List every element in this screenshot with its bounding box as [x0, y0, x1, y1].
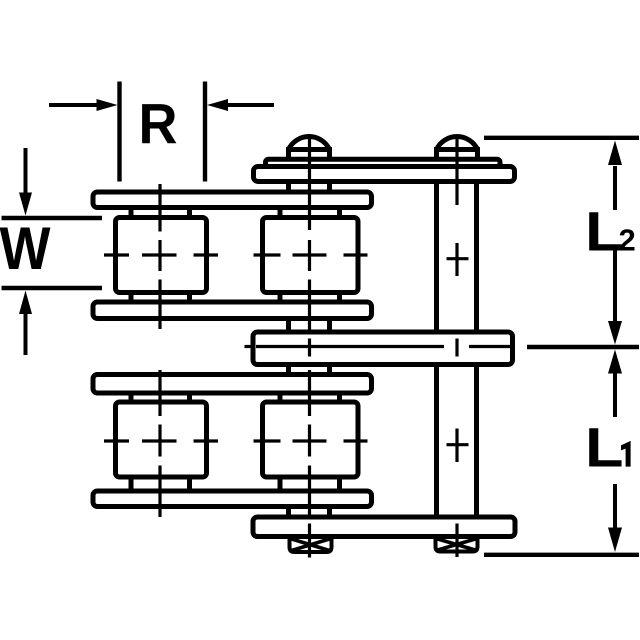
svg-text:R: R	[139, 93, 178, 157]
dimension W lines	[2, 218, 103, 288]
connecting link top plate lower	[254, 167, 515, 182]
connecting link top plate upper	[266, 159, 501, 166]
dimension L1 bottom line	[484, 553, 639, 557]
row1 left roller bushings	[131, 206, 190, 305]
dimension R extension lines	[120, 82, 206, 182]
row1 top link plate	[93, 192, 372, 208]
pin P2 shaft	[437, 181, 477, 519]
centerline middle plate horizontal y346.5	[245, 345, 513, 348]
pin P2 head	[437, 137, 478, 160]
dimension L2 up arrow	[608, 141, 622, 211]
row2 right roller	[263, 402, 359, 477]
centerline row2 horizontal y441	[104, 439, 368, 442]
pin P1 shaft segments	[289, 181, 330, 519]
dimension W bottom arrow	[19, 291, 32, 356]
centerline pin2 cross horizontals	[447, 259, 469, 445]
dimension L1 up arrow	[608, 350, 622, 418]
row2 top link plate	[93, 375, 372, 394]
row1 left roller	[116, 218, 207, 293]
centerline row1 horizontal y255	[104, 253, 368, 256]
dimension L2 top line	[484, 136, 639, 140]
row2 right roller bushings	[280, 391, 340, 493]
dimension R right arrow	[207, 99, 274, 111]
cotter pin C1	[290, 537, 332, 553]
dimension L1 down arrow	[608, 484, 622, 552]
cotter pin C2	[436, 537, 478, 552]
centerline column pin1 x309.5	[308, 139, 311, 558]
centerlines	[104, 139, 512, 558]
row2 left roller	[116, 402, 207, 477]
connecting link bottom plate	[253, 517, 515, 537]
row1 right roller	[263, 218, 359, 293]
centerline column x160 row2	[158, 370, 161, 517]
dimension L2 down arrow	[608, 250, 622, 345]
centerline column x160 row1	[158, 184, 161, 329]
label L1	[585, 416, 631, 479]
dimension W top arrow	[19, 148, 32, 216]
row2 bottom link plate	[93, 491, 372, 507]
dimension mid line	[527, 345, 639, 349]
pin P1 head	[289, 137, 330, 160]
connecting link middle plate	[253, 332, 513, 365]
centerline column pin2 x457	[455, 139, 458, 557]
svg-text:W: W	[0, 215, 51, 282]
dimension R left arrow	[49, 99, 118, 111]
row1 bottom link plate	[93, 302, 372, 319]
label L2	[585, 200, 636, 263]
row2 left roller bushings	[131, 391, 190, 493]
svg-text:L: L	[585, 416, 624, 479]
svg-text:2: 2	[619, 223, 636, 258]
row1 right roller bushings	[280, 206, 340, 305]
